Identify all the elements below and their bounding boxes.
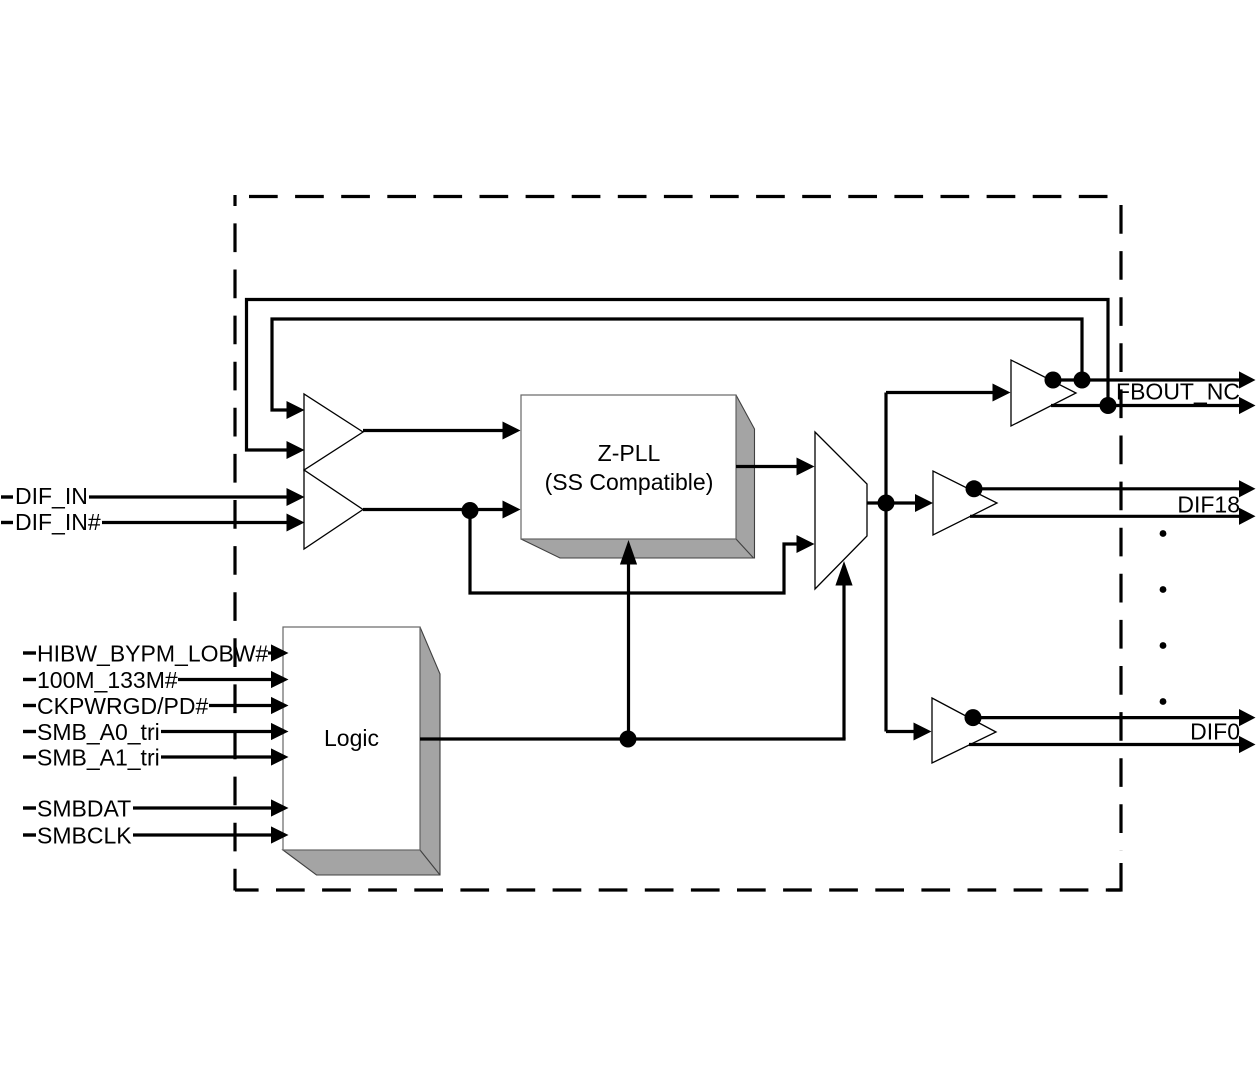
buffer U2 lower input amp (DIF_IN receiver) — [304, 470, 363, 549]
node SMBDAT stub — [23, 806, 36, 809]
chip boundary bottom edge — [235, 888, 1121, 891]
junction dot on lower buffer output — [462, 502, 479, 519]
wire HIBW_BYPM_LOBW# to Logic — [268, 651, 272, 654]
svg-text:DIF_IN#: DIF_IN# — [15, 509, 101, 535]
node DIF_IN stub — [1, 495, 13, 498]
chip boundary right edge — [1119, 195, 1122, 851]
wire Logic branch up to Z-PLL bottom — [627, 562, 630, 739]
wire trunk to DIF0 buffer — [886, 730, 915, 733]
junction dot FBOUT feedback tap — [1074, 372, 1091, 389]
chip boundary dashed box — [235, 195, 1121, 891]
buffer U1 upper input amp (feedback receiver) — [304, 394, 363, 470]
ellipsis dots between DIF18 and DIF0 — [1160, 530, 1167, 537]
junction dot DIF0 output — [965, 709, 982, 726]
junction dot FBOUT output at buffer — [1045, 372, 1062, 389]
chip boundary left edge — [233, 195, 236, 891]
wire SMB_A1_tri to Logic — [161, 755, 272, 758]
node SMBCLK stub — [23, 833, 36, 836]
wire DIF_IN# to input buffer — [102, 521, 288, 524]
junction dot Logic output — [620, 731, 637, 748]
wire SMB_A0_tri to Logic — [161, 730, 272, 733]
svg-text:Logic: Logic — [324, 725, 379, 751]
chip boundary top edge — [235, 195, 1121, 198]
wire Logic output trunk — [420, 737, 846, 740]
wire Z-PLL output to mux input 1 — [736, 465, 798, 468]
svg-text:DIF18: DIF18 — [1177, 491, 1240, 517]
junction dot DIF18 output — [966, 480, 983, 497]
svg-text:HIBW_BYPM_LOBW#: HIBW_BYPM_LOBW# — [37, 641, 269, 667]
svg-text:SMBDAT: SMBDAT — [37, 796, 131, 822]
wire SMBCLK to Logic — [133, 833, 272, 836]
buffer DIF0 output amp — [932, 698, 996, 763]
svg-text:DIF0: DIF0 — [1190, 719, 1240, 745]
wire FBOUT true output — [1050, 378, 1240, 381]
node DIF_IN# stub — [1, 521, 13, 524]
buffer FBOUT output amp — [1011, 360, 1076, 426]
wire DIF18 true output — [969, 487, 1240, 490]
block Z-PLL 3D shadow — [521, 395, 755, 558]
node SMB_A1_tri stub — [23, 755, 36, 758]
mux M1 — [815, 432, 867, 589]
svg-text:SMB_A1_tri: SMB_A1_tri — [37, 745, 160, 771]
node CKPWRGD/PD# stub — [23, 704, 36, 707]
wire lower buffer output to Z-PLL — [363, 508, 504, 511]
wire DIF_IN to input buffer — [89, 495, 288, 498]
wire Logic to mux select — [842, 583, 845, 739]
buffer DIF18 output amp — [933, 471, 997, 535]
node 100M_133M# stub — [23, 678, 36, 681]
wire feedback outer (FBOUT# to input buffer) — [247, 300, 1109, 451]
wire DIF0 true output — [968, 716, 1240, 719]
svg-text:SMBCLK: SMBCLK — [37, 823, 132, 849]
wire trunk to FBOUT buffer — [886, 391, 994, 394]
svg-text:SMB_A0_tri: SMB_A0_tri — [37, 719, 160, 745]
node SMB_A0_tri stub — [23, 730, 36, 733]
wire CKPWRGD/PD# to Logic — [209, 704, 272, 707]
wire feedback inner (FBOUT to input buffer) — [272, 319, 1082, 410]
block Logic 3D shadow — [283, 627, 440, 875]
wire DIF18 complement output — [970, 515, 1240, 518]
junction dot mux output — [878, 495, 895, 512]
wire mux output vertical trunk — [884, 393, 887, 732]
wire mux output stub — [867, 501, 884, 504]
node HIBW_BYPM_LOBW# stub — [23, 651, 36, 654]
wire trunk to DIF18 buffer — [894, 501, 916, 504]
wire FBOUT complement output — [1051, 404, 1240, 407]
svg-text:DIF_IN: DIF_IN — [15, 483, 88, 509]
svg-text:100M_133M#: 100M_133M# — [37, 667, 178, 693]
wire DIF0 complement output — [969, 743, 1240, 746]
svg-text:FBOUT_NC: FBOUT_NC — [1116, 379, 1240, 405]
svg-text:(SS Compatible): (SS Compatible) — [545, 469, 714, 495]
wire 100M_133M# to Logic — [178, 678, 272, 681]
block Logic front face — [283, 627, 420, 850]
wire upper buffer output to Z-PLL — [363, 429, 504, 432]
svg-text:Z-PLL: Z-PLL — [598, 440, 661, 466]
chip boundary bottom-right corner piece — [1108, 863, 1121, 890]
svg-text:CKPWRGD/PD#: CKPWRGD/PD# — [37, 693, 208, 719]
wire bypass path from buffer output to mux input 2 — [470, 511, 798, 594]
block Z-PLL front face — [521, 395, 736, 539]
junction dot FBOUT# feedback tap — [1100, 397, 1117, 414]
wire SMBDAT to Logic — [133, 806, 272, 809]
